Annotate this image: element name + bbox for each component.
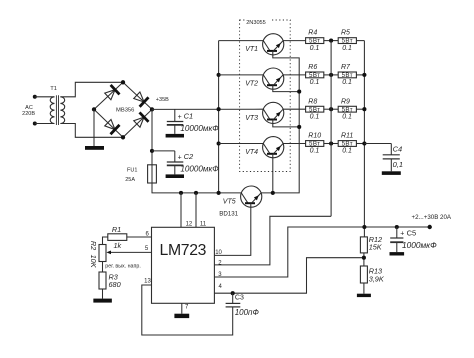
svg-text:13: 13 [144,278,151,284]
svg-text:0.1: 0.1 [310,113,320,120]
svg-text:680: 680 [109,280,121,289]
svg-text:R5: R5 [341,30,350,37]
svg-text:R6: R6 [308,64,317,71]
svg-text:5Вт: 5Вт [309,72,320,79]
svg-text:VT1: VT1 [245,46,258,53]
svg-text:5Вт: 5Вт [342,38,353,45]
svg-text:3,9K: 3,9K [369,274,385,283]
svg-text:VT3: VT3 [245,115,258,122]
svg-text:+: + [178,154,182,161]
svg-text:VT5: VT5 [223,198,236,205]
svg-text:C3: C3 [235,294,244,301]
svg-text:10: 10 [215,250,222,256]
svg-text:R9: R9 [341,98,350,105]
svg-text:R2: R2 [89,241,98,250]
svg-text:0,1: 0,1 [393,160,403,169]
svg-text:VT4: VT4 [245,149,258,156]
svg-text:0.1: 0.1 [342,45,352,52]
svg-text:AC: AC [25,105,33,111]
svg-text:FU1: FU1 [127,168,137,174]
svg-text:2N3055: 2N3055 [246,20,266,26]
svg-text:+35В: +35В [156,97,169,103]
svg-text:MB356: MB356 [116,107,134,113]
svg-text:LM723: LM723 [160,242,207,259]
svg-text:10000мкФ: 10000мкФ [180,124,219,133]
svg-text:5Вт: 5Вт [342,141,353,148]
svg-text:+: + [178,114,182,121]
svg-text:0.1: 0.1 [342,79,352,86]
svg-text:11: 11 [200,221,207,227]
svg-text:C2: C2 [184,152,194,161]
svg-text:5Вт: 5Вт [309,106,320,113]
svg-text:15K: 15K [369,242,383,251]
svg-text:5Вт: 5Вт [342,106,353,113]
svg-text:R4: R4 [308,30,317,37]
svg-text:0.1: 0.1 [342,113,352,120]
svg-text:10000мкФ: 10000мкФ [180,165,219,174]
svg-text:+: + [400,231,404,238]
svg-text:R11: R11 [341,133,353,140]
svg-text:220В: 220В [22,111,35,117]
svg-text:0.1: 0.1 [310,148,320,155]
svg-text:0.1: 0.1 [310,45,320,52]
svg-text:VT2: VT2 [245,81,258,88]
svg-text:R1: R1 [112,225,121,234]
svg-text:10K: 10K [89,255,98,269]
svg-text:R8: R8 [308,98,317,105]
svg-text:R7: R7 [341,64,351,71]
svg-text:5Вт: 5Вт [309,38,320,45]
svg-text:C4: C4 [393,144,403,153]
svg-text:5Вт: 5Вт [309,141,320,148]
svg-text:C1: C1 [184,112,194,121]
svg-text:R10: R10 [308,133,321,140]
svg-text:C5: C5 [407,228,417,237]
svg-text:+2...+30В 20А: +2...+30В 20А [412,214,452,221]
svg-text:100пФ: 100пФ [235,308,260,317]
svg-text:0.1: 0.1 [342,148,352,155]
svg-text:рег. вых. напр.: рег. вых. напр. [105,264,141,270]
svg-text:T1: T1 [50,86,57,92]
svg-text:12: 12 [186,221,193,227]
svg-text:1000мкФ: 1000мкФ [402,240,437,250]
svg-text:0.1: 0.1 [310,79,320,86]
svg-text:BD131: BD131 [219,210,238,217]
svg-text:5Вт: 5Вт [342,72,353,79]
svg-text:1k: 1k [114,241,122,250]
svg-text:25A: 25A [125,177,135,183]
